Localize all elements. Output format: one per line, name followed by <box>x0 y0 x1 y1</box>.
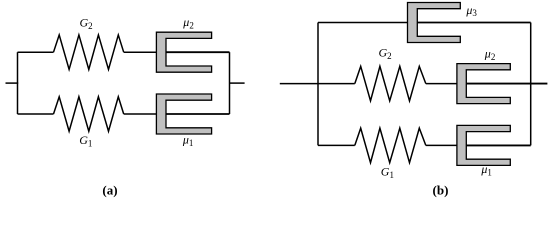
wire spring-to-dashpot middle (b) <box>426 83 457 85</box>
wire spring-to-dashpot top (a) <box>124 51 157 53</box>
dashpot M3 cup (b) <box>408 3 461 43</box>
wire left terminal (a) <box>6 82 19 84</box>
dashpot M3 rod (b) <box>417 22 530 24</box>
wire bottom-left (a) <box>18 113 54 115</box>
wire top branch (b) <box>318 22 408 24</box>
wire spring-to-dashpot bottom (a) <box>124 113 157 115</box>
wire left terminal and middle branch lead (b) <box>280 83 355 85</box>
dashpot M1 cup (b) <box>457 125 510 165</box>
dashpot M1 rod (b) <box>466 144 530 146</box>
dashpot M2 rod and right terminal (b) <box>466 83 547 85</box>
dashpot M1 rod (a) <box>166 113 230 115</box>
svg-text:(b): (b) <box>433 182 449 197</box>
spring G1 (a) <box>54 97 124 132</box>
dashpot M2 cup (a) <box>156 32 211 72</box>
dashpot M1 cup (a) <box>156 94 211 134</box>
dashpot M2 rod (a) <box>166 51 230 53</box>
wire left bus (b) <box>317 23 319 146</box>
wire top-left (a) <box>18 51 54 53</box>
spring G1 (b) <box>355 128 426 163</box>
wire bottom branch lead (b) <box>318 144 355 146</box>
spring G2 (a) <box>54 35 124 69</box>
wire spring-to-dashpot bottom (b) <box>426 144 457 146</box>
spring G2 (b) <box>355 66 426 101</box>
wire right bus (a) <box>229 52 231 114</box>
wire left bus (a) <box>17 52 19 114</box>
svg-text:(a): (a) <box>102 182 117 197</box>
wire right bus (b) <box>530 23 532 146</box>
dashpot M2 cup (b) <box>457 64 510 104</box>
wire right terminal (a) <box>230 82 245 84</box>
